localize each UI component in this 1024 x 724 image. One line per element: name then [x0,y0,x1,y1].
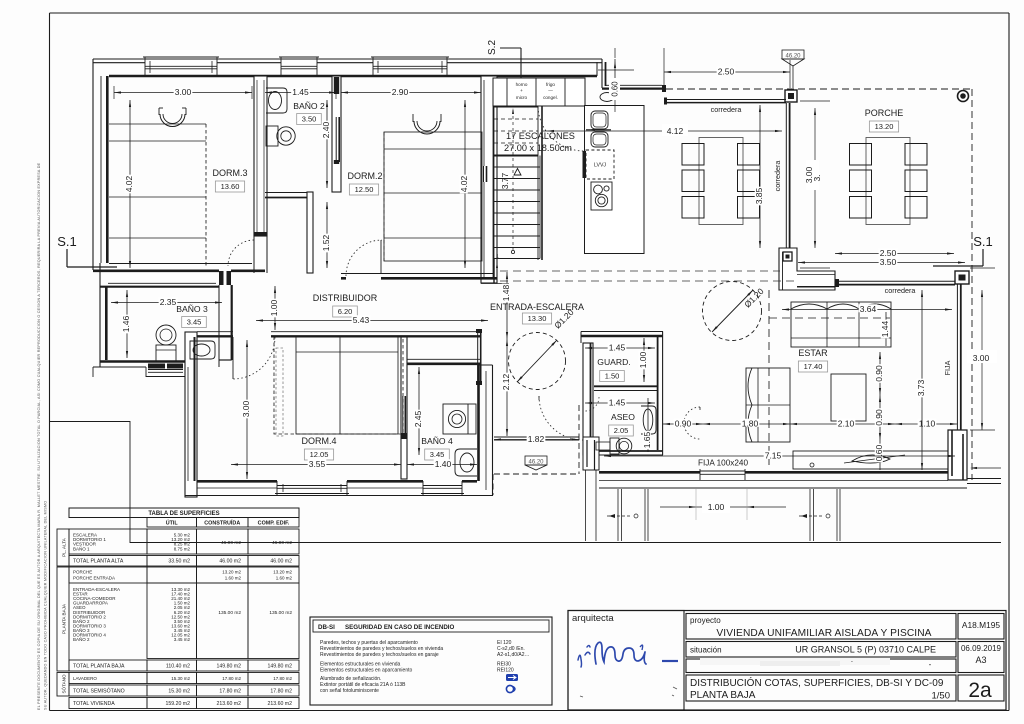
svg-text:PLANTA BAJA: PLANTA BAJA [62,603,67,634]
room label ENTRADA-ESCALERA [490,302,584,324]
porch dashed boundary top [666,88,972,90]
svg-text:2.90: 2.90 [392,87,409,97]
corner column east [955,271,969,284]
door arc dorm2 [346,240,382,276]
bano2 toilet [266,126,295,146]
sliding door corredera estar south-east [835,279,955,287]
svg-text:DORM.2: DORM.2 [347,171,382,181]
room label GUARD. [597,357,630,382]
svg-text:159.20 m2: 159.20 m2 [165,701,190,707]
svg-text:Elementos estructurales en apa: Elementos estructurales en aparcamiento [320,668,412,674]
title block sheet number 2a [958,675,1004,702]
dim 2.50 estar top [835,253,954,255]
svg-text:3.73: 3.73 [916,379,926,396]
wall bano2 bottom [265,193,307,198]
overhang dashed horizontal (estar) [769,317,890,319]
tabla de superficies title box [69,508,299,518]
svg-text:149.80 m2: 149.80 m2 [267,664,292,670]
svg-text:TOTAL VIVIENDA: TOTAL VIVIENDA [73,701,115,707]
dim 1.00 below south wall [660,489,786,520]
tabla group PLANTA BAJA items [73,583,299,659]
tabla row TOTAL SEMISOTANO [69,685,299,696]
svg-text:2.45: 2.45 [413,410,423,427]
wall top-right step (kitchen corner) [597,59,666,92]
wall stairs/kitchen (vertical) [538,88,542,260]
svg-text:1.82: 1.82 [528,434,545,444]
dim 1.45 bano2 [265,86,336,99]
svg-text:corredera: corredera [711,105,742,114]
svg-text:horno: horno [516,82,528,87]
svg-text:17 ESCALONES: 17 ESCALONES [506,131,575,141]
dim 2.35 bano3 [111,302,222,304]
dining table porch [866,138,910,225]
svg-text:BAÑO 3: BAÑO 3 [176,304,208,314]
dim 0.60 vertical sideboard [879,440,881,470]
tabla row TOTAL PLANTA BAJA [69,660,299,671]
wall L-corner block (estar north-east) [779,248,835,290]
dim row 1.80 [703,423,790,425]
title block proyecto cell [686,614,956,640]
entry threshold lines [494,437,579,440]
svg-text:0.90: 0.90 [874,365,884,382]
bano2 washbasin [266,88,287,113]
svg-text:·: · [851,657,854,666]
svg-text:27.00 x 18.50cm: 27.00 x 18.50cm [504,143,572,153]
svg-text:3.77: 3.77 [500,172,510,189]
stairs bottom arrow [496,262,498,283]
svg-text:ESTAR: ESTAR [798,348,828,358]
aseo toilet [610,438,632,454]
svg-text:VIVIENDA UNIFAMILIAR AISLADA Y: VIVIENDA UNIFAMILIAR AISLADA Y PISCINA [716,628,931,639]
kitchen sinks double [586,111,611,147]
wall bottom exterior estar [599,472,967,488]
svg-text:12.05: 12.05 [310,450,329,459]
island cooktop [591,182,612,210]
svg-text:S.1: S.1 [57,234,77,249]
svg-text:3.: 3. [812,174,822,181]
svg-text:15.30 m2: 15.30 m2 [168,689,190,695]
svg-text:2.35: 2.35 [160,297,177,307]
bano4 washbasin [455,449,477,476]
dim 4.02 dorm3 vertical [129,100,131,268]
bed dorm3 [109,108,206,268]
svg-text:1.52: 1.52 [321,234,331,251]
dim 2.12 vertical [506,339,508,436]
dim 3.00 porch vertical [800,101,830,268]
tabla group PL ALTA items [69,529,299,554]
bano4 toilet [443,404,476,434]
dim 3.55 dorm4 [231,464,401,466]
wall bano4 top [407,359,481,364]
wall guard top [581,332,663,344]
door arc aseo [684,407,700,439]
door arc entry [539,396,583,440]
wall dorm2 bottom [341,274,497,279]
svg-text:corredera: corredera [773,161,782,192]
section mark S.2 top [487,40,522,96]
revision strike polyline [50,422,1001,543]
sliding window corredera right of porch (vertical) [786,103,789,248]
dim 1.44 vertical sofa [885,312,887,346]
svg-text:SEGURIDAD EN CASO DE INCEN: SEGURIDAD EN CASO DE INCENDIO [345,624,455,631]
room label BANO 2 [293,101,325,125]
svg-text:3.45: 3.45 [430,450,445,459]
dining table kitchen [699,138,743,225]
svg-text:46.00 m2: 46.00 m2 [272,540,292,546]
room label BANO 3 [176,304,208,328]
svg-text:46.00 m2: 46.00 m2 [270,559,292,565]
svg-text:DB-SI: DB-SI [318,624,335,631]
dim 7.15 bottom [604,455,955,457]
dim 3.00 east vertical [967,268,997,430]
sofa main (horizontal) [791,302,891,347]
dim 1.48 vertical [506,272,508,339]
svg-text:13.20 m2: 13.20 m2 [222,570,241,575]
dim 4.12 kitchen [543,124,782,136]
svg-text:ASEO: ASEO [611,412,635,422]
svg-text:1.10: 1.10 [919,419,936,429]
entry steps lines to ground [586,470,597,541]
DB-SI body text [320,640,530,694]
DB-SI icon extintor (blue) [506,685,513,692]
svg-text:COMP. EDIF.: COMP. EDIF. [258,521,290,527]
svg-text:2.50: 2.50 [718,67,735,77]
dim 0.60 kitchen step vertical [598,48,634,112]
title block date cell [958,642,1004,673]
room label DISTRIBUIDOR [313,293,378,317]
wall corner block south-east [948,430,967,480]
svg-text:3.50: 3.50 [302,115,317,124]
fixed window FIJA east wall [957,284,960,430]
svg-text:proyecto: proyecto [690,616,721,625]
svg-text:LAVADERO: LAVADERO [73,676,97,681]
wall guard/aseo right [658,332,663,456]
svg-text:TOTAL PLANTA ALTA: TOTAL PLANTA ALTA [73,559,124,565]
tabla group strip PL ALTA [57,529,69,566]
svg-text:PL. ALTA: PL. ALTA [62,537,67,557]
svg-text:congel.: congel. [543,95,558,100]
aseo washbasin [641,406,656,434]
svg-text:1.45: 1.45 [609,343,626,353]
bano3 washbasin [190,341,215,359]
svg-text:3.00: 3.00 [973,353,990,363]
svg-text:DISTRIBUCIÓN COTAS, SUPERFICIE: DISTRIBUCIÓN COTAS, SUPERFICIES, DB-SI Y… [690,676,944,689]
dim 3.85 vertical cocina [759,105,761,248]
svg-text:CONSTRUÍDA: CONSTRUÍDA [204,519,240,527]
stairs lower flight treads [494,156,540,284]
tabla row TOTAL VIVIENDA [69,698,299,709]
svg-text:13.30: 13.30 [528,314,547,323]
wall corridor bottom (dorm4 top) [197,332,481,337]
dishwasher LVVJ dashed [583,150,615,179]
dim 3.64 sofa [782,309,952,311]
svg-text:3.00: 3.00 [241,400,251,417]
bed dorm4 [274,336,403,434]
dim aseo 1.65 vertical [647,398,649,452]
wall nook left (below bano2) [307,192,313,273]
threshold line corridor-entrada [481,283,509,285]
svg-text:FIJA 100x240: FIJA 100x240 [698,459,749,468]
dim 2.90 dorm2 [341,86,481,99]
porch entry dashed outline [494,405,579,474]
svg-text:3.55: 3.55 [309,459,326,469]
svg-text:0.60: 0.60 [874,444,884,461]
svg-text:PORCHE ENTRADA: PORCHE ENTRADA [73,576,115,581]
svg-text:3.45: 3.45 [187,318,202,327]
tabla group PORCHE [69,567,299,583]
svg-text:1.45: 1.45 [292,87,309,97]
svg-text:2.12: 2.12 [501,373,511,390]
sideboard south wall [793,451,948,469]
dim row 0.90 aseo door [663,423,703,425]
svg-text:4.02: 4.02 [459,175,469,192]
wall dorm3/bano2 (vertical) [254,76,267,273]
svg-text:5.43: 5.43 [353,315,370,325]
title block situacion cell [686,642,956,658]
svg-text:0.60: 0.60 [611,81,620,97]
bano3 toilet [156,325,176,362]
svg-text:BAÑO 2: BAÑO 2 [73,636,90,642]
window top W2 bano2 [279,57,319,76]
dim 3.77 stairs [500,169,521,190]
title block ref cell A18M195 [958,614,1004,640]
level flag 46.20 entry [525,456,547,470]
svg-text:3.45 m2: 3.45 m2 [174,637,191,642]
svg-text:17.80 m2: 17.80 m2 [219,689,241,695]
svg-text:7.15: 7.15 [765,451,782,461]
svg-text:PLANTA BAJA: PLANTA BAJA [690,690,756,701]
svg-text:06.09.2019: 06.09.2019 [961,644,1002,653]
svg-text:2.40: 2.40 [321,121,331,138]
dim 3.00 dorm4 vertical [246,340,248,479]
porch dashed boundary right [971,89,973,480]
window FIJA 100x240 south wall [700,469,745,480]
svg-text:15.30 m2: 15.30 m2 [171,676,190,681]
svg-text:ÚTIL: ÚTIL [166,520,179,527]
svg-text:GUARD.: GUARD. [597,357,630,367]
dim 1.46 bano3 vertical [126,290,128,358]
wall dorm3 bottom [93,264,265,271]
title block description cell [686,675,956,702]
chairs kitchen left [682,144,704,219]
svg-text:FIJA: FIJA [943,360,952,375]
tabla group strip PLANTA BAJA [57,567,69,671]
svg-text:S.2: S.2 [487,40,498,55]
svg-text:12.50: 12.50 [355,185,374,194]
DB-SI box outer [310,617,552,705]
dim guard 1.45 [585,347,655,349]
section mark S.1 left [57,234,117,267]
svg-text:+: + [520,88,523,93]
svg-text:S.1: S.1 [973,234,993,249]
entrada step walls south [583,437,610,470]
svg-text:13.20 m2: 13.20 m2 [273,570,292,575]
svg-text:2a: 2a [968,679,992,702]
svg-text:0.90: 0.90 [874,409,884,426]
door arc guard [585,397,599,411]
dim 1.40 bano4 [407,464,477,466]
dim 3.50 estar [798,262,965,264]
wall bottom exterior bano3 (laundry window) [93,362,185,378]
room label ASEO [609,412,636,436]
svg-text:1.60 m2: 1.60 m2 [276,576,293,581]
svg-text:arquitecta: arquitecta [572,613,614,624]
drain pipes below wall right [799,489,840,541]
wall entrada east / aseo west [583,343,593,455]
svg-text:3.85: 3.85 [754,187,764,204]
svg-text:con señal fotoluminiscente: con señal fotoluminiscente [320,688,379,694]
svg-text:SU AUTOR, QUEDANDO EN TODO CAS: SU AUTOR, QUEDANDO EN TODO CASO PROHIBID… [44,501,48,710]
svg-text:17.40: 17.40 [804,362,823,371]
svg-text:1.80: 1.80 [742,419,759,429]
wall bano3 right [219,285,232,367]
wall bano2/dorm2 with pocket door [332,76,341,192]
porch corner marker circle top-right [958,91,969,102]
svg-text:UR GRANSOL 5 (P) 03710 CALPE: UR GRANSOL 5 (P) 03710 CALPE [795,645,936,655]
wall right exterior bano4 [479,365,493,496]
stairs upper flight (dashed, above cut) [494,107,538,156]
svg-text:149.80 m2: 149.80 m2 [216,664,241,670]
dim 1.00 corridor vertical [274,286,276,330]
svg-text:0.90: 0.90 [675,419,692,429]
chairs porch right [905,144,927,219]
svg-text:Revestimientos de paredes y te: Revestimientos de paredes y techos/suelo… [320,652,439,658]
title block arquitecta cell [568,611,684,711]
svg-text:SÓTANO: SÓTANO [61,674,67,693]
dim guard 1.00 vertical [643,338,645,382]
wall guard/aseo divider [594,386,658,390]
svg-text:1/50: 1/50 [932,691,951,702]
svg-text:DORM.3: DORM.3 [212,168,247,178]
sliding door corredera top (kitchen-porch) [664,98,786,105]
sofa side (vertical) [746,368,790,442]
dim row 1.10 [895,423,957,425]
DB-SI icon alumbrado (blue) [506,674,518,681]
svg-text:8.75 m2: 8.75 m2 [174,546,191,551]
overhang dashed left of entrada [492,474,494,495]
title block outer box [568,611,1006,711]
svg-text:1.60 m2: 1.60 m2 [225,576,242,581]
svg-text:4.12: 4.12 [667,126,684,136]
wall aseo bottom [583,451,663,455]
svg-text:LVVJ: LVVJ [594,163,606,169]
svg-text:17.80 m2: 17.80 m2 [273,676,292,681]
dim 2.40 bano2 vertical [326,100,328,188]
kitchen wall cabinets (horno/frigo) [493,78,585,106]
dim 5.43 corridor [256,320,488,322]
svg-text:6.20: 6.20 [338,307,353,316]
svg-text:13.60: 13.60 [221,182,240,191]
level flag 46.20 porch [782,50,804,88]
svg-text:17.80 m2: 17.80 m2 [270,689,292,695]
coffee table estar [831,374,866,421]
door jambs bano3 door [219,271,224,285]
svg-text:1.65: 1.65 [642,431,652,448]
kitchen counter + island outline [585,106,645,254]
room label ESTAR [798,348,828,372]
drain pipes below wall left [607,489,648,541]
svg-text:1.00: 1.00 [638,351,648,368]
svg-text:4.02: 4.02 [124,175,134,192]
room label BANO 4 [421,436,453,460]
window south bano4 [421,481,464,495]
window top W3 dorm2 [371,57,449,76]
wall dorm4/bano4 with pocket door [401,337,407,479]
kitchen sink top (against wall) [600,93,614,102]
window south dorm4 [275,481,349,495]
svg-text:—: — [548,88,553,93]
dim 1.82 entry [494,439,579,441]
svg-text:1.00: 1.00 [708,502,725,512]
tabla group strip SOTANO [57,673,69,697]
svg-text:3.50: 3.50 [880,257,897,267]
dim 0.90 vertical lower [879,395,881,440]
chairs porch left [850,144,872,219]
svg-text:BAÑO 4: BAÑO 4 [421,436,453,446]
svg-text:EL PRESENTE DOCUMENTO ES COPIA: EL PRESENTE DOCUMENTO ES COPIA DE SU ORI… [37,162,41,710]
dim 4.02 dorm2 vertical [464,100,466,268]
door arc kitchen entry [538,107,584,151]
dim 3.00 dorm3 [114,86,252,99]
ground lines east of house [967,467,1001,484]
section mark S.1 right [933,234,993,266]
dim 0.90 vertical upper [879,352,881,395]
svg-text:3.64: 3.64 [860,304,877,314]
DB-SI header [313,620,549,632]
svg-text:13.20: 13.20 [875,122,894,131]
dim 3.73 vertical estar [921,290,923,470]
svg-text:corredera: corredera [885,286,916,295]
svg-text:BAÑO 1: BAÑO 1 [73,545,90,551]
svg-text:1.48: 1.48 [501,284,511,301]
svg-text:micro: micro [516,95,528,100]
svg-text:REI120: REI120 [497,668,514,674]
svg-text:PORCHE: PORCHE [73,570,92,575]
svg-text:110.40 m2: 110.40 m2 [166,664,190,670]
svg-text:1.40: 1.40 [435,459,452,469]
svg-text:17.80 m2: 17.80 m2 [222,676,241,681]
wall dorm2/stairs (vertical) with pocket door [481,76,497,283]
tabla column headers [147,518,299,528]
svg-text:DORM.4: DORM.4 [301,436,336,446]
accessibility circle cocina [703,282,762,341]
room label DORM.4 [301,436,336,460]
door arc dorm4 [233,337,275,379]
bed dorm2 [384,114,482,261]
svg-text:213.60 m2: 213.60 m2 [267,701,292,707]
svg-text:1: 1 [496,254,499,260]
svg-text:-: - [929,660,932,669]
room label DORM.2 [347,171,382,195]
svg-text:A3: A3 [975,655,986,665]
wall top exterior (bedroom block) [93,59,602,76]
room label PORCHE [865,108,904,132]
wall left exterior dorm4 [185,332,197,497]
svg-text:BAÑO 2: BAÑO 2 [293,101,325,111]
svg-text:1.44: 1.44 [880,320,890,337]
svg-text:A2-s1,d0/A2…: A2-s1,d0/A2… [497,652,530,658]
svg-text:1.45: 1.45 [609,398,626,408]
svg-text:213.60 m2: 213.60 m2 [216,701,241,707]
dim 2.45 bano4 vertical [418,367,420,455]
svg-text:TOTAL PLANTA BAJA: TOTAL PLANTA BAJA [73,664,125,670]
stairs label 17 escalones [504,131,575,153]
room label DORM.3 [212,168,247,192]
svg-text:DISTRIBUIDOR: DISTRIBUIDOR [313,293,378,303]
svg-text:135.00 m2: 135.00 m2 [218,610,241,616]
wall left exterior bano3 [93,263,106,367]
dim row 2.10 [790,423,895,425]
